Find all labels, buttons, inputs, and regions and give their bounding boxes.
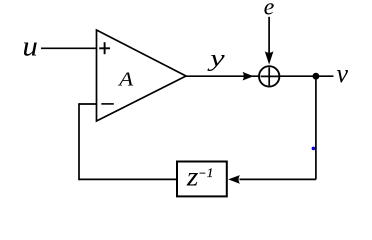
svg-text:v: v <box>337 59 349 88</box>
svg-text:−: − <box>198 165 206 180</box>
svg-text:1: 1 <box>207 166 213 180</box>
svg-text:z: z <box>186 162 199 192</box>
svg-text:y: y <box>207 46 225 72</box>
svg-text:u: u <box>22 31 38 62</box>
svg-text:A: A <box>117 68 134 90</box>
